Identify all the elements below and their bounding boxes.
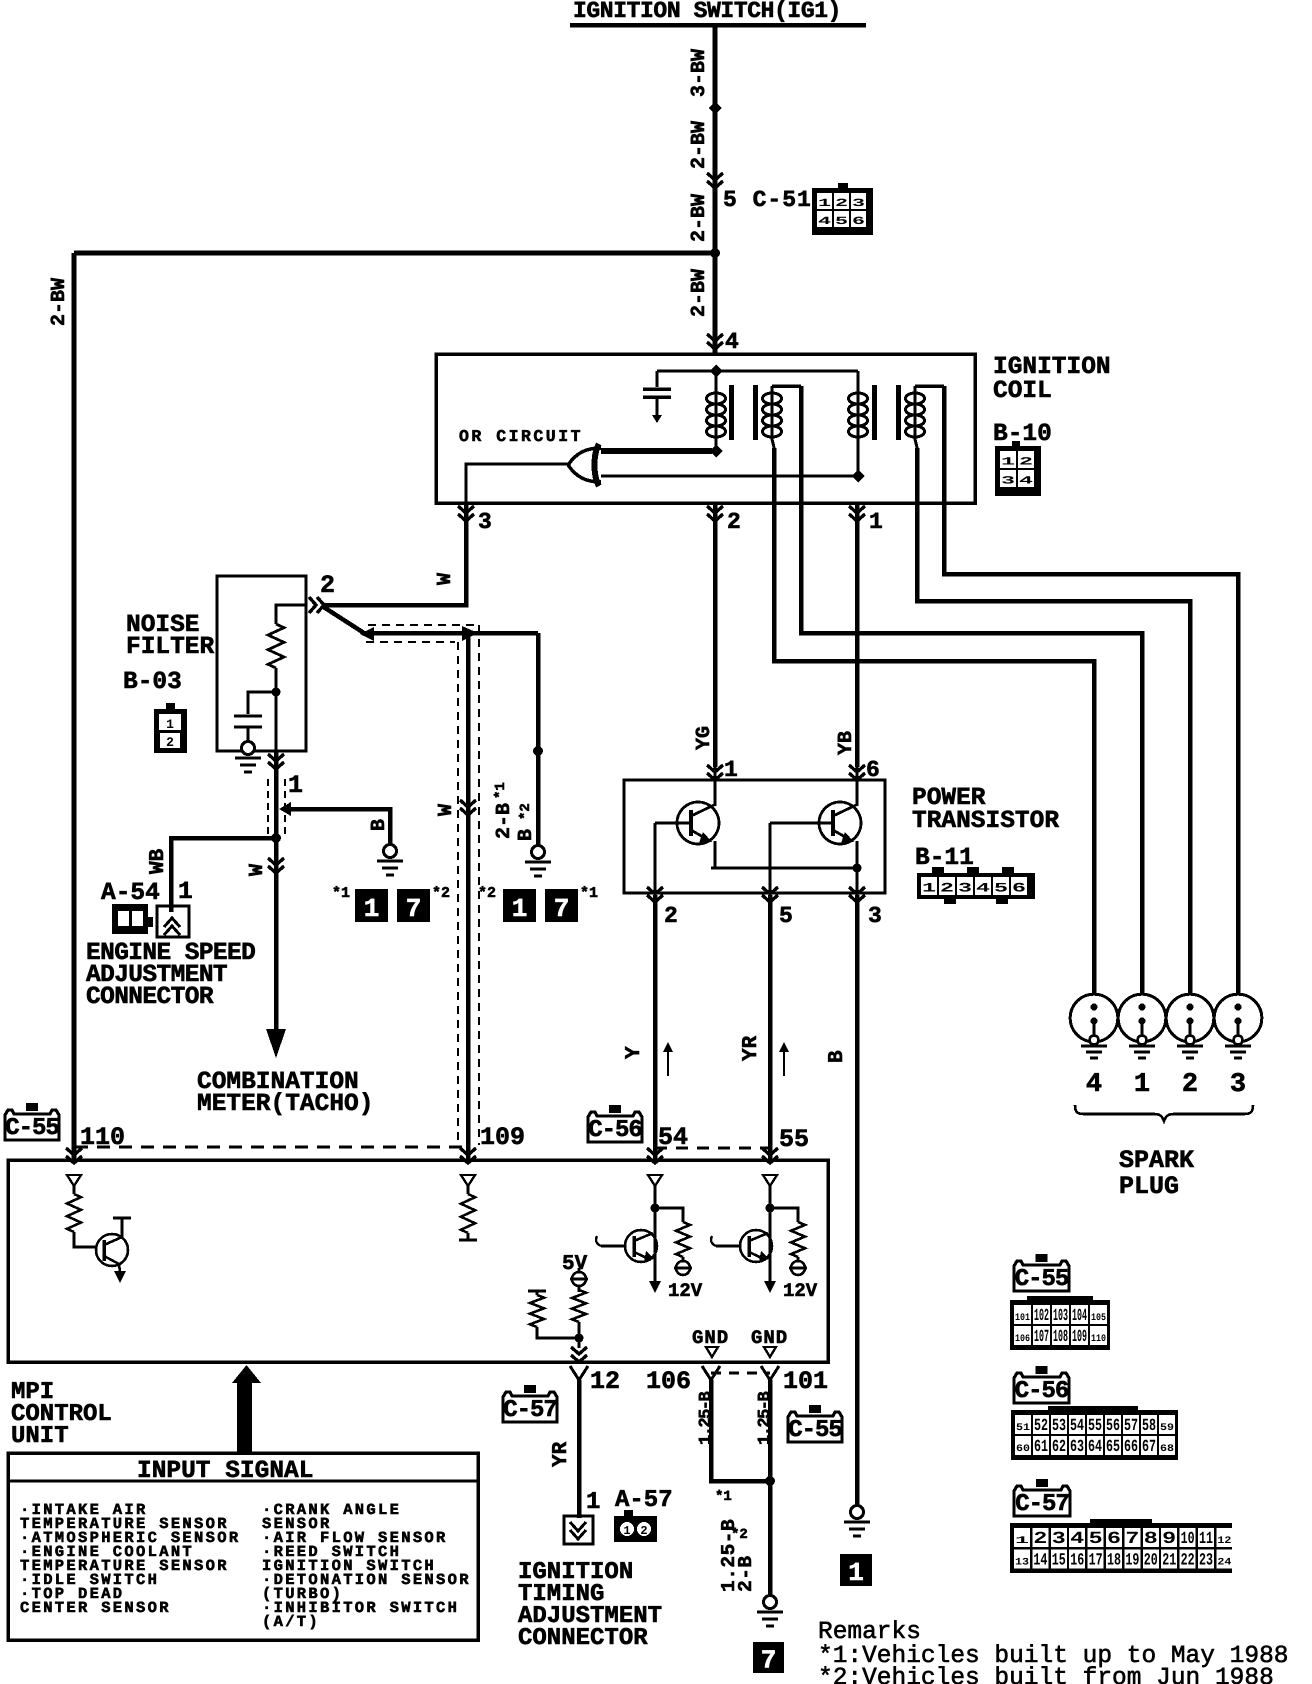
node: splice on B wire xyxy=(533,746,543,756)
svg-text:23: 23 xyxy=(1199,1552,1213,1571)
svg-text:WB: WB xyxy=(147,848,170,874)
connector B-11 icon xyxy=(932,867,944,874)
svg-text:2-BW: 2-BW xyxy=(688,269,711,317)
svg-text:110: 110 xyxy=(80,1123,125,1152)
noise filter pin 2 chevron xyxy=(309,597,324,613)
transformer T1 secondary winding xyxy=(772,384,801,388)
svg-text:C-55: C-55 xyxy=(788,1417,842,1444)
svg-text:4: 4 xyxy=(818,216,832,228)
wire: 1.25-B ground wire from pin 106 xyxy=(711,1380,770,1481)
noise filter pin 1 exit chevron xyxy=(268,754,284,769)
svg-text:2-BW: 2-BW xyxy=(688,194,711,242)
wire: divider left branch xyxy=(537,1327,579,1338)
connector C-57 icon at pin 12 xyxy=(524,1385,536,1393)
svg-text:CONNECTOR: CONNECTOR xyxy=(86,984,214,1011)
svg-text:1: 1 xyxy=(166,717,174,732)
svg-text:1.25-B: 1.25-B xyxy=(756,1391,775,1445)
transistor Q2 in power transistor unit xyxy=(819,802,861,844)
svg-text:61: 61 xyxy=(1034,1438,1048,1457)
power transistor pin 2 exit chevron xyxy=(647,887,663,902)
transformer T2 core xyxy=(872,385,877,440)
svg-text:65: 65 xyxy=(1106,1438,1120,1457)
wire: Q2 base to pin 5 xyxy=(770,822,833,825)
node: junction at pin 55 circuit xyxy=(766,1204,775,1213)
svg-text:8: 8 xyxy=(1144,1530,1158,1549)
wire: Q1 collector/emitter vertical xyxy=(714,767,717,806)
svg-text:15: 15 xyxy=(1052,1552,1066,1571)
svg-text:1: 1 xyxy=(1015,1536,1029,1547)
emitter arrow at pin 55 xyxy=(764,1281,776,1293)
svg-text:UNIT: UNIT xyxy=(11,1423,69,1450)
svg-text:C-56: C-56 xyxy=(1015,1378,1069,1405)
wire: OR gate output to pin 3 xyxy=(466,464,568,503)
svg-text:3: 3 xyxy=(1052,1530,1066,1549)
connector A-57 icon xyxy=(624,1510,633,1516)
svg-text:1: 1 xyxy=(178,879,193,906)
svg-text:101: 101 xyxy=(1015,1313,1030,1324)
svg-text:B-10: B-10 xyxy=(993,421,1052,448)
svg-text:108: 108 xyxy=(1053,1328,1068,1347)
svg-text:*2: *2 xyxy=(432,885,450,902)
node: junction diamond bottom of primary 2 xyxy=(852,470,865,483)
svg-text:4: 4 xyxy=(1086,1070,1102,1100)
svg-text:A-54: A-54 xyxy=(101,880,160,907)
coil pin 3 exit chevron xyxy=(458,506,474,521)
wire: HT lead to spark plug 4 xyxy=(774,448,1094,1008)
svg-text:9: 9 xyxy=(1162,1530,1176,1549)
power transistor box outline xyxy=(624,780,885,893)
MPI control unit box outline xyxy=(8,1160,828,1362)
wire: Q1 base to pin 2 xyxy=(655,822,691,825)
wire to transistor base xyxy=(74,1232,97,1247)
connector C-51 pin 5 entry chevron xyxy=(707,173,723,188)
svg-text:55: 55 xyxy=(1088,1417,1102,1436)
svg-text:CENTER SENSOR: CENTER SENSOR xyxy=(20,1599,171,1617)
brace under spark plugs xyxy=(1075,1105,1253,1121)
transistor at pin 55 inside MPI unit xyxy=(740,1230,772,1262)
svg-text:3: 3 xyxy=(852,198,866,210)
input signal box header separator xyxy=(8,1480,478,1483)
svg-text:57: 57 xyxy=(1124,1417,1138,1436)
svg-text:68: 68 xyxy=(1160,1444,1174,1455)
svg-text:67: 67 xyxy=(1142,1438,1156,1457)
svg-text:METER(TACHO): METER(TACHO) xyxy=(197,1091,373,1118)
wire: 1.25-B ground wire from pin 101 xyxy=(768,1380,773,1596)
svg-text:C-55: C-55 xyxy=(1015,1266,1069,1293)
svg-text:1: 1 xyxy=(1001,457,1016,469)
GND open triangle left xyxy=(706,1347,718,1357)
wire: OR gate input 1 (thick) xyxy=(601,448,712,454)
node: junction of left branch on feed wire xyxy=(710,248,720,258)
svg-text:60: 60 xyxy=(1016,1444,1030,1455)
wire: OR gate input 2 xyxy=(601,475,855,478)
left divider resistor terminal xyxy=(536,1291,539,1295)
input conditioning at pin 55: open triangle xyxy=(763,1175,777,1186)
OR gate (or circuit) xyxy=(568,448,601,482)
wire: B wire from pin 3 to ground xyxy=(855,895,860,1506)
svg-text:3-BW: 3-BW xyxy=(688,49,711,97)
svg-text:A-57: A-57 xyxy=(615,1487,673,1514)
transformer T1 primary winding xyxy=(715,371,718,451)
svg-text:103: 103 xyxy=(1053,1307,1068,1326)
svg-text:GND: GND xyxy=(751,1327,788,1349)
base lead with hook at pin 55 xyxy=(716,1245,740,1248)
svg-text:24: 24 xyxy=(1217,1558,1231,1569)
svg-text:1: 1 xyxy=(288,771,303,800)
node: junction at pin 54 circuit xyxy=(651,1204,660,1213)
connector B-10 icon xyxy=(1012,441,1020,447)
connector C-55 icon at pin 110 xyxy=(26,1103,38,1111)
svg-text:YB: YB xyxy=(835,731,858,755)
pin 106 connector symbol xyxy=(702,1366,720,1380)
svg-text:PLUG: PLUG xyxy=(1119,1172,1179,1201)
ignition coil pin 4 entry chevron xyxy=(707,334,723,349)
Q3 collector terminal xyxy=(121,1219,124,1237)
spark plug 4 xyxy=(1070,994,1118,1042)
svg-text:FILTER: FILTER xyxy=(126,634,215,661)
signal direction arrow on YR wire xyxy=(783,1048,785,1076)
pin 12 connector symbol xyxy=(570,1366,588,1380)
ground for MPI ground wires xyxy=(764,1596,777,1609)
transformer T2 primary winding xyxy=(857,371,860,476)
svg-text:5: 5 xyxy=(994,880,1008,895)
svg-text:10: 10 xyxy=(1181,1530,1195,1549)
left divider resistor xyxy=(530,1295,544,1327)
connector C-57 icon (pinout) xyxy=(1036,1479,1048,1487)
svg-text:*2:Vehicles built from Jun 198: *2:Vehicles built from Jun 1988 xyxy=(818,1665,1274,1684)
GND open triangle right xyxy=(764,1347,776,1357)
svg-text:19: 19 xyxy=(1125,1552,1139,1571)
wire: coil primary top rail xyxy=(657,369,858,372)
svg-text:13: 13 xyxy=(1015,1558,1029,1569)
wire: YG wire from coil pin 2 to power transistor pin 1 xyxy=(713,503,718,767)
wire: YB wire from coil pin 1 to power transistor pin 6 xyxy=(855,503,860,767)
input conditioning at pin 110: open triangle xyxy=(67,1175,81,1186)
wire: ignition feed vertical 2-BW xyxy=(713,25,718,356)
svg-text:W: W xyxy=(434,573,457,585)
wire: B tap to ground xyxy=(289,809,390,845)
svg-text:C-57: C-57 xyxy=(1015,1491,1069,1518)
svg-text:17: 17 xyxy=(1089,1552,1103,1571)
wire: WB branch to A-54 xyxy=(171,838,276,912)
wire: left 2-BW vertical down to MPI pin 110 xyxy=(72,253,77,1160)
wire: Q2 collector/emitter vertical xyxy=(856,767,859,806)
transistor Q1 in power transistor unit xyxy=(677,802,719,844)
svg-text:14: 14 xyxy=(1033,1552,1047,1571)
svg-text:105: 105 xyxy=(1091,1313,1106,1324)
noise filter resistor xyxy=(268,624,284,668)
input signal box outline xyxy=(8,1453,478,1640)
svg-text:CONNECTOR: CONNECTOR xyxy=(518,1625,648,1652)
transistor at pin 54 inside MPI unit xyxy=(625,1230,657,1262)
wire: B wire to ground from shielded run xyxy=(536,633,541,846)
wire: emitter bus to pin 3 xyxy=(711,867,857,870)
connector A-54 icon xyxy=(112,904,148,934)
svg-text:*2: *2 xyxy=(478,885,496,902)
svg-text:4: 4 xyxy=(1019,476,1034,488)
svg-text:12V: 12V xyxy=(783,1280,818,1302)
wire: shielded horizontal W run xyxy=(362,631,538,636)
MPI pin 110 entry chevron xyxy=(66,1148,82,1163)
MPI pin 12 exit chevron xyxy=(571,1347,587,1362)
spark plug 2 xyxy=(1166,994,1214,1042)
svg-text:107: 107 xyxy=(1034,1328,1049,1347)
dashed connector line 106-101 xyxy=(711,1372,770,1375)
svg-text:C-57: C-57 xyxy=(503,1397,557,1424)
resistor at pin 109 xyxy=(467,1186,470,1194)
svg-text:3: 3 xyxy=(478,509,492,535)
transistor Q3 inside MPI unit xyxy=(96,1234,128,1266)
node: junction diamond on feed wire xyxy=(709,102,722,115)
node: junction diamond bottom of primary 1 xyxy=(710,445,723,458)
shield dashes horizontal xyxy=(368,624,477,626)
svg-text:53: 53 xyxy=(1052,1417,1066,1436)
svg-text:62: 62 xyxy=(1052,1438,1066,1457)
transformer T2 secondary winding xyxy=(915,384,944,388)
5V pull-up resistor xyxy=(572,1290,586,1322)
svg-text:52: 52 xyxy=(1034,1417,1048,1436)
svg-text:YR: YR xyxy=(740,1035,763,1061)
svg-text:2: 2 xyxy=(940,880,954,895)
svg-text:59: 59 xyxy=(1160,1423,1174,1434)
svg-text:SPARK: SPARK xyxy=(1119,1146,1194,1175)
svg-text:(A/T): (A/T) xyxy=(262,1613,320,1631)
connector C-56 pinout diagram xyxy=(1048,1406,1138,1412)
svg-text:B: B xyxy=(515,829,538,841)
wire: diagonal from noise filter node xyxy=(322,606,364,633)
svg-text:2: 2 xyxy=(1019,457,1033,469)
svg-text:*1: *1 xyxy=(715,1489,732,1505)
svg-text:2: 2 xyxy=(727,509,741,535)
svg-text:104: 104 xyxy=(1072,1307,1087,1326)
svg-text:1: 1 xyxy=(586,1489,600,1516)
svg-text:106: 106 xyxy=(646,1367,691,1396)
svg-text:11: 11 xyxy=(1199,1530,1213,1549)
wire: HT lead to spark plug 3 xyxy=(944,386,1238,1008)
pin 101 connector symbol xyxy=(761,1366,779,1380)
svg-text:64: 64 xyxy=(1088,1438,1102,1457)
node: junction in noise filter xyxy=(272,688,281,697)
svg-text:YG: YG xyxy=(693,726,716,750)
wire: shielded W wire from noise filter down xyxy=(274,751,279,1031)
svg-text:OR CIRCUIT: OR CIRCUIT xyxy=(459,427,583,446)
spark plug 3 xyxy=(1214,994,1262,1042)
svg-text:56: 56 xyxy=(1106,1417,1120,1436)
svg-text:1.25-B: 1.25-B xyxy=(697,1391,716,1445)
svg-text:B: B xyxy=(826,1050,849,1063)
connector C-55 icon (pinout) xyxy=(1036,1254,1048,1262)
svg-text:6: 6 xyxy=(1107,1530,1121,1549)
noise filter capacitor xyxy=(234,714,262,717)
junction arrow on shielded run xyxy=(462,626,478,641)
svg-text:7: 7 xyxy=(761,1645,777,1675)
svg-text:1: 1 xyxy=(512,894,528,924)
base lead with hook at pin 54 xyxy=(601,1245,625,1248)
svg-text:2: 2 xyxy=(640,1524,647,1538)
ground for power transistor pin 3 xyxy=(851,1506,864,1519)
input conditioning at pin 109: open triangle xyxy=(461,1175,475,1186)
shield dashes vertical to 109 xyxy=(457,642,459,1145)
connector C-55 icon at pin 101 xyxy=(809,1405,821,1413)
ground for B tap xyxy=(384,845,397,858)
collector/emitter wire at pin 55 xyxy=(769,1208,772,1282)
noise filter box outline xyxy=(217,576,306,751)
svg-text:2: 2 xyxy=(1182,1070,1198,1100)
svg-text:YR: YR xyxy=(550,1441,573,1467)
svg-text:106: 106 xyxy=(1015,1334,1030,1345)
svg-text:*1: *1 xyxy=(493,782,509,799)
svg-text:58: 58 xyxy=(1142,1417,1156,1436)
wire: branch to MPI pin 110 (horizontal) xyxy=(74,251,715,256)
svg-text:GND: GND xyxy=(692,1327,729,1349)
svg-text:1: 1 xyxy=(364,894,380,924)
wire: shielded W wire down to MPI pin 109 xyxy=(466,633,471,1160)
power transistor pin 5 exit chevron xyxy=(762,887,778,902)
svg-text:63: 63 xyxy=(1070,1438,1084,1457)
node: 5V divider junction xyxy=(575,1334,584,1343)
emitter arrow at pin 54 xyxy=(649,1281,661,1293)
svg-text:16: 16 xyxy=(1070,1552,1084,1571)
coil pin 2 exit chevron xyxy=(707,506,723,521)
node: WB branch junction xyxy=(271,833,281,843)
connector C-57 pinout diagram xyxy=(1090,1519,1152,1525)
svg-text:W: W xyxy=(246,864,269,876)
svg-text:2-BW: 2-BW xyxy=(48,278,71,326)
svg-text:4: 4 xyxy=(976,880,990,895)
svg-text:2: 2 xyxy=(664,903,678,929)
tap arrow on shielded wire (to B ground) xyxy=(279,802,291,816)
collector/emitter wire at pin 54 xyxy=(654,1208,657,1282)
svg-text:*1: *1 xyxy=(332,885,350,902)
svg-text:1: 1 xyxy=(922,880,936,895)
input signal thick arrow into MPI unit xyxy=(237,1380,252,1454)
svg-text:109: 109 xyxy=(480,1123,525,1152)
svg-text:5: 5 xyxy=(1089,1530,1103,1549)
Q3 emitter arrow xyxy=(119,1264,120,1272)
svg-text:2: 2 xyxy=(320,571,335,600)
resistor at pin 110 xyxy=(73,1186,76,1194)
svg-text:2-B: 2-B xyxy=(735,1555,757,1592)
svg-text:20: 20 xyxy=(1144,1552,1158,1571)
svg-text:1: 1 xyxy=(869,509,883,535)
svg-text:C-56: C-56 xyxy=(588,1117,642,1144)
svg-text:2-BW: 2-BW xyxy=(688,121,711,169)
connector B-03 icon xyxy=(166,703,175,710)
svg-text:1: 1 xyxy=(848,1558,864,1588)
svg-text:22: 22 xyxy=(1181,1552,1195,1571)
wire: W wire from coil pin 3 to noise filter xyxy=(323,503,466,605)
svg-text:COIL: COIL xyxy=(993,378,1052,405)
12V pull-up resistor at pin 54 xyxy=(655,1208,683,1222)
svg-text:109: 109 xyxy=(1072,1328,1087,1347)
ignition coil box outline xyxy=(436,354,975,503)
wire: Y wire from pin 2 to MPI 54 xyxy=(653,895,658,1160)
MPI pin 54 entry chevron xyxy=(647,1148,663,1163)
svg-text:*2: *2 xyxy=(731,1527,748,1543)
arrow to combination meter xyxy=(266,1029,286,1058)
shield dashes around noise filter output xyxy=(267,779,269,834)
connector C-56 icon at pins 54/55 xyxy=(609,1105,621,1113)
node: junction diamond top of primary 1 xyxy=(710,365,723,378)
noise filter ground xyxy=(242,742,255,755)
svg-text:C-55: C-55 xyxy=(5,1115,59,1142)
wire: capacitor branch xyxy=(248,692,276,714)
12V pull-up resistor at pin 55 xyxy=(770,1208,798,1222)
5V source symbol xyxy=(578,1268,581,1292)
svg-text:IGNITION: IGNITION xyxy=(993,354,1111,381)
connector C-56 icon (pinout) xyxy=(1036,1366,1048,1374)
svg-text:B-03: B-03 xyxy=(123,669,182,696)
node: emitter junction xyxy=(853,864,862,873)
svg-text:TRANSISTOR: TRANSISTOR xyxy=(912,808,1059,835)
input conditioning at pin 54: open triangle xyxy=(648,1175,662,1186)
connector C-51 icon xyxy=(838,183,848,189)
splice arrow left end of shielded run xyxy=(360,627,374,641)
svg-text:66: 66 xyxy=(1124,1438,1138,1457)
svg-text:12V: 12V xyxy=(668,1280,703,1302)
svg-text:51: 51 xyxy=(1016,1423,1030,1434)
svg-text:INPUT SIGNAL: INPUT SIGNAL xyxy=(137,1458,313,1485)
chevron on shielded W wire xyxy=(460,800,476,815)
svg-text:6: 6 xyxy=(1012,880,1026,895)
svg-text:5 C-51: 5 C-51 xyxy=(723,187,812,213)
svg-text:W: W xyxy=(435,804,458,816)
wire: YR wire from pin 12 to timing connector xyxy=(577,1380,582,1518)
footnote square pin 7 xyxy=(753,1642,784,1673)
capacitor in coil unit xyxy=(656,371,659,387)
svg-text:Y: Y xyxy=(623,1046,646,1059)
wire: noise filter input from pin 2 xyxy=(276,605,306,624)
svg-text:3: 3 xyxy=(1001,476,1016,488)
power transistor pin 3 exit chevron xyxy=(849,887,865,902)
connector C-55 pinout diagram xyxy=(1027,1296,1093,1302)
pin 109 resistor terminal xyxy=(467,1233,470,1240)
spark plug 1 xyxy=(1118,994,1166,1042)
svg-text:101: 101 xyxy=(783,1367,828,1396)
svg-text:B: B xyxy=(368,819,391,831)
signal direction arrow up on Y wire xyxy=(667,1048,669,1076)
footnote square pin 1 xyxy=(840,1554,872,1586)
svg-text:18: 18 xyxy=(1107,1552,1121,1571)
svg-text:*2: *2 xyxy=(518,803,534,820)
svg-text:4: 4 xyxy=(725,329,739,355)
ignition timing adjustment connector terminal box xyxy=(564,1516,593,1544)
svg-text:6: 6 xyxy=(852,216,865,228)
svg-text:5: 5 xyxy=(835,216,849,228)
svg-text:12: 12 xyxy=(590,1367,620,1396)
dashed connector line 54-55 xyxy=(655,1147,770,1150)
svg-text:12: 12 xyxy=(1217,1536,1231,1547)
svg-text:*1: *1 xyxy=(580,885,598,902)
svg-text:1: 1 xyxy=(623,1524,630,1538)
svg-text:4: 4 xyxy=(1070,1530,1084,1549)
svg-text:3: 3 xyxy=(868,903,882,929)
svg-text:102: 102 xyxy=(1034,1307,1049,1326)
wire: HT lead to spark plug 2 xyxy=(917,448,1190,1008)
ground for shield B wire xyxy=(532,846,545,859)
engine speed adjustment connector terminal box xyxy=(157,906,189,937)
power transistor pin 1 chevron xyxy=(707,765,723,780)
dashed boundary line above MPI unit (110-109) xyxy=(75,1146,463,1149)
svg-text:2: 2 xyxy=(835,198,848,210)
svg-text:B-11: B-11 xyxy=(915,845,974,872)
svg-text:Remarks: Remarks xyxy=(818,1619,921,1646)
MPI pin 109 entry chevron xyxy=(460,1148,476,1163)
svg-text:55: 55 xyxy=(779,1125,809,1154)
svg-text:6: 6 xyxy=(866,757,880,783)
svg-text:7: 7 xyxy=(1125,1530,1139,1549)
svg-text:IGNITION SWITCH(IG1): IGNITION SWITCH(IG1) xyxy=(573,0,841,24)
